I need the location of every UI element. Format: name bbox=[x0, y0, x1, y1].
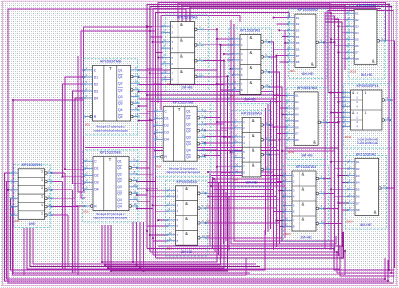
DD8 gate 2 input pins bbox=[234, 136, 242, 138]
junction bbox=[210, 185, 212, 187]
svg-text:D4: D4 bbox=[94, 188, 98, 192]
svg-text:D2: D2 bbox=[94, 174, 98, 178]
junction bbox=[136, 194, 138, 196]
wire bbox=[206, 222, 280, 224]
DD14 input pin 5 bbox=[348, 188, 355, 190]
wire bbox=[211, 175, 276, 177]
wire bbox=[269, 71, 279, 73]
DD1 inverter 2 output bbox=[45, 180, 48, 183]
DD1 inverter 2 input bbox=[11, 180, 18, 182]
svg-text:1: 1 bbox=[364, 111, 366, 115]
svg-text:8И-НЕ: 8И-НЕ bbox=[302, 72, 314, 76]
svg-text:&: & bbox=[180, 22, 183, 27]
wire bbox=[220, 127, 234, 129]
wire bbox=[276, 55, 288, 57]
DD1 inverter 3 input bbox=[11, 189, 18, 191]
svg-text:&: & bbox=[252, 148, 255, 153]
svg-text:Q2: Q2 bbox=[117, 179, 122, 183]
DD11 gate 1 input pins bbox=[284, 175, 292, 177]
wire bbox=[150, 195, 168, 197]
svg-text:D2: D2 bbox=[164, 124, 168, 128]
DD11 gate 2 input pins bbox=[284, 190, 292, 192]
junction bbox=[330, 38, 332, 40]
DD13 section 1 input 4 bbox=[344, 105, 351, 107]
junction bbox=[230, 68, 232, 70]
wire bbox=[52, 206, 78, 208]
wire bbox=[390, 99, 393, 101]
svg-text:Q3: Q3 bbox=[118, 102, 123, 106]
wire bbox=[269, 72, 280, 244]
wire bbox=[279, 107, 287, 109]
junction bbox=[323, 41, 325, 43]
junction bbox=[204, 117, 206, 119]
wire bbox=[233, 157, 235, 159]
junction bbox=[138, 105, 140, 107]
wire bbox=[205, 129, 227, 131]
IC DD12 8-input NAND КР1533ЛА2 bbox=[347, 4, 386, 79]
wire bbox=[137, 180, 155, 182]
junction bbox=[7, 189, 9, 191]
wire bbox=[205, 142, 234, 144]
DD6 gate 4 output pin bbox=[198, 236, 201, 239]
svg-text:D5: D5 bbox=[295, 119, 299, 123]
DD8 gate 1 input pins bbox=[234, 121, 242, 123]
svg-text:8И-НЕ: 8И-НЕ bbox=[302, 154, 314, 158]
wire bbox=[150, 7, 391, 273]
wire bbox=[147, 94, 280, 96]
DD11 gate 2 output pin bbox=[316, 192, 319, 195]
DD14 input pin 7 bbox=[348, 202, 355, 204]
DD6 gate 2 output pin bbox=[198, 207, 201, 210]
wire bbox=[153, 9, 381, 255]
wire bbox=[325, 19, 339, 256]
DD10 input pin 4 bbox=[287, 113, 294, 115]
svg-text:Q4: Q4 bbox=[186, 155, 191, 159]
DD7 gate 4 output pin bbox=[261, 86, 264, 89]
svg-text:КР1533ЛН1: КР1533ЛН1 bbox=[22, 163, 43, 167]
junction bbox=[384, 278, 386, 280]
wire bbox=[81, 31, 156, 198]
svg-text:D1: D1 bbox=[296, 16, 300, 20]
junction bbox=[281, 114, 283, 116]
DD3 output pin ~Q4 bbox=[129, 205, 132, 208]
wire bbox=[205, 136, 231, 138]
svg-text:Q4: Q4 bbox=[118, 108, 123, 112]
wire bbox=[156, 232, 344, 258]
DD14 input pin 3 bbox=[348, 175, 355, 177]
wire bbox=[342, 181, 348, 183]
wire bbox=[153, 41, 163, 43]
wire bbox=[150, 101, 282, 103]
IC DD6 quad 2-input NAND КР1533ЛА3 bbox=[166, 180, 208, 256]
wire bbox=[150, 252, 395, 273]
wire bbox=[78, 56, 85, 192]
svg-text:&: & bbox=[250, 65, 253, 70]
svg-text:D2: D2 bbox=[94, 82, 98, 86]
DD3 input pin D1 bbox=[85, 167, 93, 169]
junction bbox=[223, 136, 225, 138]
svg-text:КР1533ЛА2: КР1533ЛА2 bbox=[298, 8, 318, 12]
svg-text:&: & bbox=[252, 133, 255, 138]
wire bbox=[267, 104, 269, 232]
junction bbox=[281, 150, 283, 152]
DD5 gate 3 output pin bbox=[195, 59, 198, 62]
junction bbox=[101, 261, 103, 263]
DD4 input pin D1 bbox=[155, 117, 163, 119]
IC DD11 quad 2-input NAND КР1533ЛА3 bbox=[283, 165, 328, 242]
svg-text:параллельным выходом: параллельным выходом bbox=[166, 170, 200, 174]
DD4 output pin Q2 bbox=[197, 123, 205, 125]
wire bbox=[75, 98, 85, 206]
DD11 gate 3 input pins bbox=[284, 205, 292, 207]
wire bbox=[206, 237, 283, 239]
junction bbox=[107, 267, 109, 269]
wire bbox=[208, 182, 282, 184]
svg-text:DD6: DD6 bbox=[167, 248, 173, 251]
DD2 output pin ~Q2 bbox=[131, 89, 134, 92]
junction bbox=[138, 120, 140, 122]
DD2 input pin D4 bbox=[85, 97, 93, 99]
junction bbox=[149, 234, 151, 236]
wire bbox=[224, 53, 232, 55]
DD7 gate 4 input pins bbox=[232, 83, 240, 85]
junction bbox=[157, 57, 159, 59]
junction bbox=[223, 60, 225, 62]
junction bbox=[146, 25, 148, 27]
IC DD5 quad 2-input NAND КР1533ЛА3 bbox=[162, 15, 209, 92]
DD9 input pin 3 bbox=[288, 29, 295, 31]
wire bbox=[335, 116, 344, 118]
wire bbox=[217, 166, 234, 168]
junction bbox=[278, 139, 280, 141]
DD14 input pin 6 bbox=[348, 195, 355, 197]
DD2 input pin C bbox=[85, 69, 93, 71]
junction bbox=[216, 166, 218, 168]
wire bbox=[150, 119, 155, 121]
wire bbox=[205, 155, 220, 157]
junction bbox=[154, 133, 156, 135]
svg-text:1: 1 bbox=[41, 211, 43, 215]
svg-text:Q4: Q4 bbox=[118, 115, 123, 119]
DD14 input pin 8 bbox=[348, 209, 355, 211]
svg-text:Q4: Q4 bbox=[186, 149, 191, 153]
svg-text:&: & bbox=[185, 186, 188, 191]
DD14 input pin 4 bbox=[348, 181, 355, 183]
DD8 gate 4 input pins bbox=[234, 166, 242, 168]
DD3 output pin ~Q2 bbox=[129, 179, 132, 182]
DD4 output pin ~Q3 bbox=[197, 142, 200, 145]
svg-text:КР1533ЛА3: КР1533ЛА3 bbox=[296, 165, 316, 169]
IC DD2 quad D-flip-flop register КР1533ТМ8 bbox=[84, 59, 140, 135]
svg-text:Q1: Q1 bbox=[117, 160, 122, 164]
svg-text:Q1: Q1 bbox=[118, 68, 123, 72]
wire bbox=[178, 3, 330, 21]
DD2 input pin D3 bbox=[85, 90, 93, 92]
svg-text:DD10: DD10 bbox=[288, 151, 295, 154]
DD1 inverter 4 output bbox=[45, 197, 48, 200]
DD2 input pin R (inverted) bbox=[90, 115, 93, 118]
wire bbox=[150, 72, 163, 74]
wire bbox=[137, 187, 158, 189]
wire bbox=[285, 120, 287, 122]
junction bbox=[284, 42, 286, 44]
DD6 gate 4 input pins bbox=[168, 234, 176, 236]
DD9 input pin 2 bbox=[288, 23, 295, 25]
wire bbox=[27, 228, 340, 269]
wire bbox=[139, 69, 217, 71]
DD11 gate 1 output pin bbox=[316, 177, 319, 180]
svg-text:Q2: Q2 bbox=[117, 172, 122, 176]
wire bbox=[224, 136, 234, 138]
junction bbox=[51, 172, 53, 174]
svg-text:2И-НЕ: 2И-НЕ bbox=[246, 181, 258, 185]
svg-text:2И-НЕ: 2И-НЕ bbox=[181, 250, 193, 254]
DD6 gate 3 input pins bbox=[168, 219, 176, 221]
wire bbox=[52, 214, 68, 216]
DD9 input pin 1 bbox=[288, 17, 295, 19]
wire bbox=[155, 210, 167, 212]
DD13 section 2 output bbox=[382, 119, 385, 122]
svg-text:D8: D8 bbox=[296, 60, 300, 64]
wire bbox=[139, 98, 277, 100]
wire bbox=[284, 205, 285, 207]
junction bbox=[51, 206, 53, 208]
svg-text:D1: D1 bbox=[355, 11, 359, 15]
wire bbox=[206, 207, 277, 209]
wire bbox=[342, 58, 347, 60]
svg-text:D2: D2 bbox=[295, 100, 299, 104]
wire bbox=[234, 24, 334, 241]
svg-text:D7: D7 bbox=[296, 54, 300, 58]
junction bbox=[323, 208, 325, 210]
svg-text:Q2: Q2 bbox=[118, 88, 123, 92]
svg-text:&: & bbox=[185, 201, 188, 206]
DD9 input pin 4 bbox=[288, 36, 295, 38]
DD13 section 2 input 2 bbox=[344, 116, 351, 118]
wire bbox=[62, 181, 64, 270]
DD10 input pin 3 bbox=[287, 107, 294, 109]
wire bbox=[139, 76, 221, 78]
wire bbox=[153, 240, 168, 242]
svg-text:&: & bbox=[180, 53, 183, 58]
wire bbox=[74, 198, 76, 273]
DD2 output pin Q1 bbox=[131, 69, 139, 71]
DD8 gate 3 output pin bbox=[261, 153, 264, 156]
svg-text:&: & bbox=[252, 118, 255, 123]
DD7 gate 2 input pins bbox=[232, 53, 240, 55]
svg-text:1: 1 bbox=[41, 169, 43, 173]
wire bbox=[331, 92, 344, 94]
wire bbox=[212, 177, 214, 249]
wire bbox=[335, 45, 348, 47]
svg-text:Q3: Q3 bbox=[118, 95, 123, 99]
junction bbox=[132, 261, 134, 263]
junction bbox=[216, 28, 218, 30]
wire bbox=[158, 57, 162, 59]
junction bbox=[136, 264, 138, 266]
svg-text:D3: D3 bbox=[164, 131, 168, 135]
wire bbox=[331, 38, 347, 40]
svg-text:1: 1 bbox=[41, 178, 43, 182]
DD4 input pin R (inverted) bbox=[161, 155, 164, 158]
junction bbox=[157, 219, 159, 221]
svg-text:&: & bbox=[302, 216, 305, 221]
svg-text:6НЕ: 6НЕ bbox=[29, 222, 36, 226]
IC DD9 8-input NAND КР1533ЛА2 bbox=[287, 8, 327, 78]
DD12 input pin 2 bbox=[347, 19, 354, 21]
svg-text:1: 1 bbox=[41, 195, 43, 199]
junction bbox=[323, 178, 325, 180]
wire bbox=[331, 112, 344, 114]
DD3 output pin Q4 bbox=[129, 199, 137, 201]
svg-text:&: & bbox=[372, 58, 375, 63]
wire bbox=[205, 123, 224, 125]
svg-text:D2: D2 bbox=[356, 167, 360, 171]
DD3 input pin D3 bbox=[85, 181, 93, 183]
wire bbox=[231, 68, 232, 70]
wire bbox=[231, 20, 336, 244]
wire bbox=[8, 189, 10, 191]
wire bbox=[214, 178, 279, 180]
svg-text:&: & bbox=[252, 162, 255, 167]
wire bbox=[279, 226, 284, 228]
wire bbox=[338, 175, 348, 177]
junction bbox=[146, 94, 148, 96]
junction bbox=[268, 71, 270, 73]
svg-text:D1: D1 bbox=[356, 160, 360, 164]
wire bbox=[137, 201, 150, 203]
DD12 input pin 8 bbox=[347, 58, 354, 60]
junction bbox=[388, 269, 390, 271]
wire bbox=[217, 121, 234, 123]
junction bbox=[216, 83, 218, 85]
wire bbox=[338, 25, 347, 27]
wire bbox=[153, 126, 156, 128]
svg-text:&: & bbox=[302, 171, 305, 176]
wire bbox=[137, 194, 147, 196]
svg-text:&: & bbox=[180, 69, 183, 74]
svg-text:D6: D6 bbox=[355, 44, 359, 48]
wire bbox=[227, 142, 234, 144]
svg-text:2И-НЕ: 2И-НЕ bbox=[300, 235, 312, 239]
svg-text:КР1533ЛА3: КР1533ЛА3 bbox=[177, 16, 197, 20]
junction bbox=[139, 267, 141, 269]
svg-text:D1: D1 bbox=[164, 117, 168, 121]
junction bbox=[323, 41, 325, 43]
wire bbox=[139, 83, 224, 85]
junction bbox=[330, 92, 332, 94]
IC DD3 quad D-flip-flop register КР1533ТМ8 bbox=[82, 150, 138, 222]
junction bbox=[338, 202, 340, 204]
junction bbox=[268, 41, 270, 43]
IC DD8 quad 2-input NAND КР1533ЛА3 bbox=[232, 111, 271, 187]
wire bbox=[208, 171, 274, 173]
wire bbox=[276, 181, 284, 183]
svg-text:1: 1 bbox=[364, 91, 366, 95]
svg-text:Q1: Q1 bbox=[118, 75, 123, 79]
junction bbox=[336, 251, 338, 253]
wire bbox=[5, 173, 389, 281]
wire bbox=[284, 30, 286, 238]
wire bbox=[139, 120, 153, 122]
svg-text:параллельным выходом: параллельным выходом bbox=[93, 215, 127, 219]
wire bbox=[220, 89, 232, 91]
svg-text:D3: D3 bbox=[296, 28, 300, 32]
junction bbox=[223, 53, 225, 55]
wire bbox=[139, 91, 274, 93]
junction bbox=[152, 204, 154, 206]
wire bbox=[67, 215, 69, 267]
svg-text:Q2: Q2 bbox=[118, 82, 123, 86]
wire bbox=[147, 110, 155, 112]
svg-text:2И-НЕ: 2И-НЕ bbox=[182, 85, 194, 89]
DD7 gate 1 output pin bbox=[261, 41, 264, 44]
junction bbox=[273, 17, 275, 19]
junction bbox=[388, 4, 390, 6]
DD9 input pin 7 bbox=[288, 55, 295, 57]
wire bbox=[52, 197, 75, 199]
wire bbox=[217, 38, 232, 40]
wire bbox=[220, 186, 222, 258]
DD2 output pin Q4 bbox=[131, 109, 139, 111]
wire bbox=[325, 16, 335, 253]
junction bbox=[154, 150, 156, 152]
DD1 inverter 1 output bbox=[45, 172, 48, 175]
wire bbox=[279, 61, 288, 63]
junction bbox=[146, 26, 148, 28]
junction bbox=[276, 220, 278, 222]
svg-text:T: T bbox=[109, 66, 112, 71]
junction bbox=[344, 250, 346, 252]
DD8 gate 2 output pin bbox=[261, 138, 264, 141]
DD14 output pin bbox=[379, 187, 382, 190]
svg-text:D6: D6 bbox=[295, 125, 299, 129]
wire bbox=[228, 196, 230, 251]
wire bbox=[158, 232, 343, 246]
wire bbox=[211, 185, 285, 187]
junction bbox=[330, 12, 332, 14]
junction bbox=[230, 151, 232, 153]
DD9 input pin 8 bbox=[288, 61, 295, 63]
wire bbox=[335, 195, 348, 197]
svg-text:КР1533ЛР11: КР1533ЛР11 bbox=[356, 84, 378, 88]
wire bbox=[52, 189, 73, 191]
svg-text:&: & bbox=[250, 50, 253, 55]
wire bbox=[223, 189, 225, 244]
junction bbox=[205, 222, 207, 224]
wire bbox=[220, 44, 232, 46]
wire bbox=[390, 119, 391, 121]
svg-text:DD13: DD13 bbox=[345, 136, 352, 139]
DD3 input pin D4 bbox=[85, 188, 93, 190]
wire bbox=[147, 67, 163, 69]
DD1 inverter 5 input bbox=[11, 206, 18, 208]
svg-text:Q3: Q3 bbox=[117, 185, 122, 189]
junction bbox=[110, 270, 112, 272]
DD4 input pin D2 bbox=[155, 124, 163, 126]
svg-text:D3: D3 bbox=[295, 106, 299, 110]
DD2 input pin D1 bbox=[85, 76, 93, 78]
DD8 gate 1 output pin bbox=[261, 124, 264, 127]
wire bbox=[72, 190, 74, 273]
svg-text:D7: D7 bbox=[295, 132, 299, 136]
DD10 input pin 7 bbox=[287, 132, 294, 134]
wire bbox=[147, 25, 163, 27]
wire bbox=[63, 84, 86, 177]
junction bbox=[62, 176, 64, 178]
DD4 input pin D4 bbox=[155, 138, 163, 140]
wire bbox=[269, 41, 274, 43]
